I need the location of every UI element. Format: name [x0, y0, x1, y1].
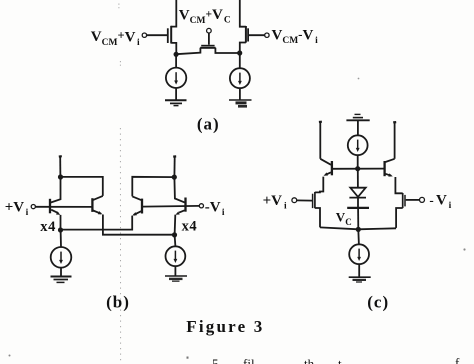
- ground (a) right: [229, 100, 252, 106]
- node V_C dot (c): [356, 227, 361, 232]
- wire I1 to ground: [175, 88, 177, 100]
- current source I6 (c) bottom: [349, 244, 369, 264]
- wire top ground to current source I5: [357, 121, 359, 135]
- wire I2 to ground: [239, 88, 241, 99]
- transistor Q1 (b) x4 outer left: [50, 177, 61, 230]
- wire node L-bot to current source I3: [60, 230, 62, 247]
- svg-text:x4: x4: [182, 219, 198, 235]
- wire node R-bot to current source I4: [174, 235, 177, 246]
- svg-text:Figure 3: Figure 3: [186, 317, 264, 336]
- base rail (c): [332, 168, 384, 170]
- wire node B to current source I2: [239, 53, 241, 68]
- svg-text:f: f: [455, 355, 460, 364]
- node R-top dot (b): [172, 175, 177, 180]
- svg-text:+Vi: +Vi: [263, 193, 287, 212]
- node B dot (a): [237, 50, 242, 55]
- current source I5 (c) top: [348, 135, 368, 155]
- transistor Q5 (c) left BJT: [320, 159, 332, 176]
- svg-text:fil: fil: [243, 356, 255, 364]
- svg-text:x4: x4: [40, 219, 56, 235]
- dotted scan fold line: [119, 4, 121, 364]
- svg-text:(a): (a): [197, 115, 220, 134]
- wire I4 to ground: [174, 266, 176, 276]
- current source I1 (a): [166, 68, 186, 88]
- ground (c) bottom: [349, 277, 371, 282]
- wire L-top node to Q2 collector: [61, 177, 103, 196]
- bottom rail (c): [320, 227, 396, 229]
- collector stub (b) left: [59, 156, 61, 177]
- bottom cut-off text fragments: [187, 355, 461, 364]
- collector stub (c) right: [394, 122, 396, 159]
- wire I6 to ground: [358, 264, 360, 276]
- node base (c) dot: [355, 166, 360, 171]
- svg-text:5: 5: [212, 356, 219, 364]
- nmos M4 (c) left: [292, 192, 320, 228]
- svg-text:-Vi: -Vi: [205, 199, 225, 218]
- nmos M5 (c) right: [396, 193, 424, 228]
- wire Q5 emitter to M4 drain: [315, 177, 323, 193]
- svg-text:VCM+Vi: VCM+Vi: [91, 29, 140, 48]
- speck artifact: [358, 78, 360, 80]
- transistor Q3 (b) inner right: [132, 196, 142, 215]
- ground (c) top inverted: [346, 114, 369, 120]
- nmos M1 left (a): [142, 0, 176, 54]
- ground (a) left: [165, 100, 187, 105]
- svg-text:t: t: [338, 356, 342, 364]
- svg-text:VCM+VC: VCM+VC: [179, 7, 231, 26]
- terminal -Vi (b): [199, 204, 203, 208]
- node L-bot dot (b): [58, 227, 63, 232]
- ground (b) right: [165, 276, 187, 281]
- svg-text:VCM-Vi: VCM-Vi: [272, 26, 319, 46]
- transistor Q6 (c) right BJT: [385, 159, 395, 177]
- base wire Q3,Q4 to -Vi terminal (b): [143, 205, 199, 208]
- transistor Q4 (b) x4 outer right: [174, 177, 185, 235]
- wire Q2 emitter to node R-bot (cross): [103, 215, 174, 235]
- varactor D1 (c): [347, 169, 369, 230]
- nmos M2 right (a): [240, 0, 269, 53]
- svg-text:(b): (b): [106, 293, 130, 312]
- base wire +Vi to Q1,Q2 (b): [36, 206, 92, 208]
- current source I2 (a): [230, 68, 250, 88]
- wire Q3 collector to node R-top: [132, 177, 174, 197]
- wire node V_C to current source I6: [357, 229, 360, 244]
- current source I3 (b): [51, 247, 72, 268]
- nmos M3 middle (a): [176, 28, 240, 54]
- wire I3 to ground: [60, 268, 62, 277]
- wire I5 to base node: [357, 155, 359, 169]
- svg-text:th: th: [304, 356, 315, 364]
- node R-bot dot (b): [172, 232, 177, 237]
- svg-text:(c): (c): [367, 293, 389, 312]
- current source I4 (b): [166, 246, 186, 266]
- wire Q6 emitter to M5 drain: [395, 177, 402, 193]
- wire Q3 emitter to node L-bot (cross): [61, 216, 133, 230]
- collector stub (c) left: [319, 122, 321, 159]
- svg-text:VC: VC: [336, 210, 352, 227]
- wire node A to current source I1: [175, 54, 177, 67]
- node A dot (a): [174, 52, 179, 57]
- svg-text:+Vi: +Vi: [5, 199, 29, 218]
- node L-top dot (b): [58, 174, 63, 179]
- transistor Q2 (b) inner left: [92, 196, 102, 214]
- collector stub (b) right: [173, 157, 175, 178]
- terminal +Vi (b): [31, 205, 35, 209]
- ground (b) left: [51, 277, 72, 283]
- svg-text:-Vi: -Vi: [429, 192, 451, 211]
